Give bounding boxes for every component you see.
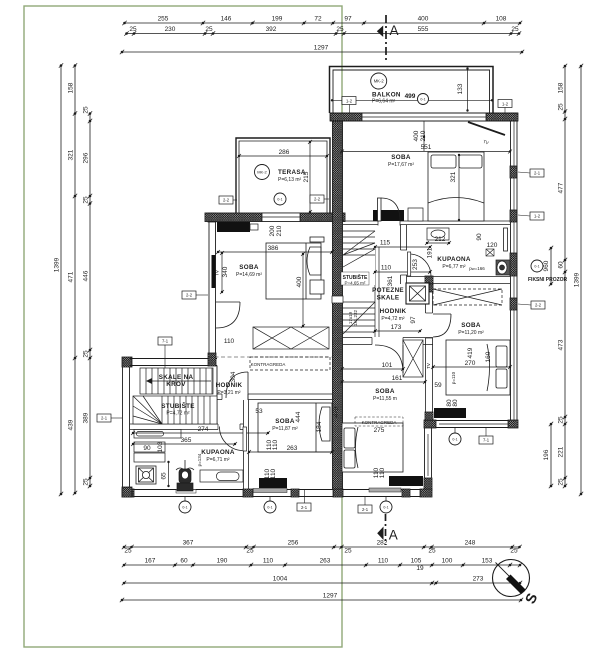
svg-text:190: 190 xyxy=(217,558,228,565)
dim dim212 xyxy=(425,236,451,245)
dim 400/210 window xyxy=(413,121,427,151)
box 2-2 right wall c xyxy=(531,301,545,309)
svg-text:120: 120 xyxy=(487,242,498,249)
dim 115 xyxy=(373,240,432,250)
marker 0-1 bottom c xyxy=(380,501,392,513)
svg-text:167: 167 xyxy=(145,558,156,565)
svg-text:110: 110 xyxy=(224,338,235,345)
svg-text:133: 133 xyxy=(457,83,464,94)
radiator kupaona right xyxy=(504,228,508,251)
washbasin kupaona left xyxy=(200,470,243,482)
box 7-1 bottom right xyxy=(479,436,493,444)
dim chain right mid xyxy=(558,64,568,488)
kupaona-right south wall xyxy=(407,276,510,284)
svg-text:TERASA: TERASA xyxy=(278,169,306,176)
svg-text:110: 110 xyxy=(379,467,386,478)
dim balkon width xyxy=(331,93,493,102)
section marker A top xyxy=(377,15,399,63)
terasa parapet xyxy=(236,138,330,213)
box 2-1 left wall xyxy=(97,414,111,422)
dim chain left mid xyxy=(68,63,78,495)
dim chain right win2 xyxy=(543,422,553,488)
kontragreda beam left xyxy=(250,357,330,370)
marker 0-1 balkon xyxy=(418,94,429,105)
svg-text:POTEZNE: POTEZNE xyxy=(372,287,404,294)
svg-text:389: 389 xyxy=(83,412,90,423)
svg-text:KONTRAGREDA: KONTRAGREDA xyxy=(362,420,397,425)
svg-text:P=4,72 m²: P=4,72 m² xyxy=(166,411,190,417)
svg-text:173: 173 xyxy=(391,324,402,331)
dim dim270 xyxy=(431,360,512,369)
marker MK-2 balkon xyxy=(371,73,387,89)
svg-text:80: 80 xyxy=(452,399,459,407)
svg-text:P=17,67 m²: P=17,67 m² xyxy=(388,162,414,168)
leader 0-1 a xyxy=(184,497,186,501)
svg-text:1x1,232: 1x1,232 xyxy=(353,309,358,326)
dashed slab edge xyxy=(208,356,332,358)
marker 0-1 window d xyxy=(449,433,461,445)
svg-text:pw=166: pw=166 xyxy=(469,266,485,271)
svg-text:HODNIK: HODNIK xyxy=(380,308,407,315)
dim chain right win1 xyxy=(543,246,553,286)
dim dim263 xyxy=(247,445,334,454)
svg-text:P=4,65 m²: P=4,65 m² xyxy=(345,281,366,286)
small square kupaona right xyxy=(486,249,494,256)
svg-text:230: 230 xyxy=(165,26,176,33)
svg-text:0-1: 0-1 xyxy=(267,505,272,509)
kontragreda beam right xyxy=(433,289,502,305)
svg-text:365: 365 xyxy=(181,437,192,444)
box 1-2 balkon left xyxy=(342,97,356,114)
svg-text:2-2: 2-2 xyxy=(223,198,230,203)
balcony parapet xyxy=(330,67,494,114)
top wall right unit xyxy=(330,113,518,121)
door soba 11,20 xyxy=(433,314,451,337)
svg-text:101: 101 xyxy=(382,362,393,369)
bottom wall xyxy=(122,488,432,497)
box 7-1 skale xyxy=(158,337,172,345)
svg-text:210: 210 xyxy=(276,225,283,236)
wall under soba 17,67 xyxy=(343,220,510,226)
svg-text:25: 25 xyxy=(558,416,565,424)
svg-text:MK-2: MK-2 xyxy=(257,169,267,174)
svg-text:153: 153 xyxy=(482,558,493,565)
svg-text:255: 255 xyxy=(158,16,169,23)
dim soba1 width xyxy=(340,144,512,154)
svg-text:0-1: 0-1 xyxy=(277,197,282,201)
dim chain left outer xyxy=(54,63,64,496)
black dresser soba 11,87 xyxy=(259,478,287,488)
svg-text:P=6,64 m²: P=6,64 m² xyxy=(372,99,396,105)
svg-text:A: A xyxy=(389,528,398,543)
box 1-2 balkon right xyxy=(498,100,512,114)
svg-text:1-2: 1-2 xyxy=(534,214,541,219)
dim 110/110 bottom xyxy=(373,467,386,478)
right wall xyxy=(510,121,517,420)
box 2-2 terasa left xyxy=(219,196,233,204)
dim 200/210 xyxy=(269,225,283,236)
dim 304 xyxy=(230,371,237,382)
step wall lower-left block xyxy=(130,359,217,366)
dim chain left inner xyxy=(83,106,93,488)
svg-text:25: 25 xyxy=(344,548,352,555)
wardrobe X soba 11,20 xyxy=(403,340,423,377)
soba 11,20 west wall xyxy=(425,284,434,420)
svg-text:2-1: 2-1 xyxy=(362,507,369,512)
svg-text:7-1: 7-1 xyxy=(483,438,490,443)
box 2-2 terasa right xyxy=(310,195,324,203)
svg-text:0-1: 0-1 xyxy=(534,264,539,268)
dim chain bottom row1 xyxy=(122,540,522,550)
svg-text:TV: TV xyxy=(426,363,431,369)
svg-text:110: 110 xyxy=(263,558,274,565)
svg-text:1-2: 1-2 xyxy=(502,101,509,106)
svg-text:65: 65 xyxy=(161,472,168,480)
svg-text:SKALE: SKALE xyxy=(377,295,400,302)
svg-text:275: 275 xyxy=(374,427,385,434)
dim dim161 xyxy=(340,375,427,384)
svg-text:477: 477 xyxy=(558,182,565,193)
dim chain right outer xyxy=(574,64,584,496)
terasa south wall xyxy=(205,213,345,222)
leader 0-1 b xyxy=(269,497,271,501)
svg-text:392: 392 xyxy=(266,26,277,33)
black dresser soba 17,67 xyxy=(373,210,404,221)
svg-text:400: 400 xyxy=(296,276,303,287)
dims soba 11,87 xyxy=(295,411,323,432)
svg-text:367: 367 xyxy=(183,540,194,547)
svg-text:1297: 1297 xyxy=(323,593,338,600)
dim dim365 xyxy=(131,437,237,446)
svg-text:0-1: 0-1 xyxy=(182,505,187,509)
left unit west wall xyxy=(208,213,216,366)
svg-text:210: 210 xyxy=(420,130,427,141)
svg-text:551: 551 xyxy=(421,144,432,151)
svg-text:158: 158 xyxy=(68,82,75,93)
svg-text:7-1: 7-1 xyxy=(162,339,169,344)
dim dim173 xyxy=(373,324,422,333)
svg-text:P=6,71 m²: P=6,71 m² xyxy=(206,457,230,463)
stair block east wall line xyxy=(216,366,218,425)
svg-text:296: 296 xyxy=(83,152,90,163)
dim dim101 xyxy=(340,362,405,371)
dim 97 xyxy=(410,316,417,324)
right lower wall xyxy=(424,428,432,490)
svg-text:270: 270 xyxy=(465,360,476,367)
svg-text:P=11,20 m²: P=11,20 m² xyxy=(458,330,484,336)
stairs skale na krov xyxy=(140,368,213,394)
svg-text:2-1: 2-1 xyxy=(534,171,541,176)
stairs stubiste right xyxy=(343,225,375,334)
svg-text:108: 108 xyxy=(496,16,507,23)
svg-text:25: 25 xyxy=(511,26,519,33)
svg-text:P=3,21 m²: P=3,21 m² xyxy=(217,390,241,396)
svg-text:0-1: 0-1 xyxy=(383,505,388,509)
door kupaona right xyxy=(408,252,432,276)
svg-text:1297: 1297 xyxy=(314,45,329,52)
shower kupaona left xyxy=(136,466,156,484)
svg-text:161: 161 xyxy=(392,375,403,382)
center party wall xyxy=(332,121,343,489)
svg-text:471: 471 xyxy=(68,271,75,282)
svg-text:90: 90 xyxy=(476,233,483,241)
bed soba 17,67 xyxy=(428,152,484,221)
counter kupaona left xyxy=(134,430,181,439)
dim chain top row3 xyxy=(120,45,524,55)
bed soba 14,69 xyxy=(266,237,324,299)
svg-text:90: 90 xyxy=(143,445,151,452)
box 2-1 right wall a xyxy=(530,169,544,177)
svg-text:KONTRAGREDA: KONTRAGREDA xyxy=(251,362,286,367)
svg-text:199: 199 xyxy=(272,16,283,23)
svg-text:2-2: 2-2 xyxy=(535,303,542,308)
svg-text:25: 25 xyxy=(246,548,254,555)
svg-text:P=4,72 m²: P=4,72 m² xyxy=(381,316,405,322)
svg-text:184: 184 xyxy=(316,421,323,432)
door garden soba 14,69 xyxy=(216,302,240,328)
svg-text:273: 273 xyxy=(473,576,484,583)
bed soba 11,87 xyxy=(258,403,332,452)
svg-text:STUBIŠTE: STUBIŠTE xyxy=(161,401,195,410)
toilet kupaona left (dark) xyxy=(176,460,194,491)
svg-text:SOBA: SOBA xyxy=(239,264,259,271)
svg-text:0-1: 0-1 xyxy=(420,98,425,102)
svg-text:25: 25 xyxy=(428,548,436,555)
bottom-right wall xyxy=(424,420,518,428)
svg-text:25: 25 xyxy=(205,26,213,33)
svg-text:25: 25 xyxy=(83,106,90,114)
marker 0-1 bottom b xyxy=(264,501,276,513)
svg-text:60: 60 xyxy=(180,558,188,565)
svg-text:53: 53 xyxy=(255,408,263,415)
svg-text:P=6,77 m²: P=6,77 m² xyxy=(442,264,466,270)
dim dim274 xyxy=(131,426,270,435)
svg-text:KROV: KROV xyxy=(166,381,186,388)
svg-text:97: 97 xyxy=(410,316,417,324)
dim soba2 width xyxy=(216,245,334,254)
leader 0-1 c xyxy=(385,497,387,501)
svg-text:19: 19 xyxy=(416,565,424,572)
door soba 11,87 xyxy=(226,372,248,400)
svg-text:1399: 1399 xyxy=(54,257,61,272)
svg-text:KUPAONA: KUPAONA xyxy=(201,449,235,456)
svg-text:FIKSNI PROZOR: FIKSNI PROZOR xyxy=(528,277,568,283)
svg-text:158: 158 xyxy=(558,82,565,93)
svg-text:MK-2: MK-2 xyxy=(374,79,385,84)
svg-text:212: 212 xyxy=(435,236,446,243)
nightstand soba 17,67 xyxy=(408,208,423,221)
washbasin kupaona right xyxy=(427,228,449,240)
dim terasa depth xyxy=(303,140,312,214)
door kupaona left xyxy=(219,427,246,452)
svg-text:25: 25 xyxy=(510,548,518,555)
marker 0-1 fiksni xyxy=(531,260,543,272)
svg-text:386: 386 xyxy=(268,245,279,252)
toilet dark kupaona right xyxy=(496,260,510,275)
svg-text:SKALE NA: SKALE NA xyxy=(159,374,194,381)
marker 0-1 bottom a xyxy=(179,501,191,513)
svg-text:274: 274 xyxy=(198,426,209,433)
svg-text:103: 103 xyxy=(157,441,164,452)
marker MK-2 terasa xyxy=(255,165,270,180)
dim chain top row1 xyxy=(122,16,522,26)
svg-text:115: 115 xyxy=(380,240,391,247)
svg-text:25: 25 xyxy=(129,26,137,33)
svg-text:361: 361 xyxy=(387,275,394,286)
dim 110 xyxy=(373,265,432,275)
svg-text:1004: 1004 xyxy=(273,576,288,583)
svg-text:160: 160 xyxy=(485,351,492,362)
svg-text:P=14,69 m²: P=14,69 m² xyxy=(236,272,262,278)
svg-text:P=6,13 m²: P=6,13 m² xyxy=(278,177,302,183)
room label STUBISTE right xyxy=(341,272,369,286)
svg-text:BALKON: BALKON xyxy=(372,92,401,99)
svg-text:25: 25 xyxy=(558,103,565,111)
svg-text:SOBA: SOBA xyxy=(391,154,411,161)
svg-text:400: 400 xyxy=(413,130,420,141)
shaft square with X xyxy=(406,283,429,304)
dim chain bottom row4 xyxy=(120,593,523,603)
svg-text:59: 59 xyxy=(434,382,442,389)
dim 419/160 xyxy=(467,347,492,362)
svg-text:256: 256 xyxy=(288,540,299,547)
dim 90/120 xyxy=(476,233,498,249)
svg-text:A: A xyxy=(390,23,399,38)
svg-text:439: 439 xyxy=(68,419,75,430)
tv on wall xyxy=(212,255,216,288)
box 2-1 bottom center xyxy=(358,497,372,513)
stair closet wall right xyxy=(374,247,376,337)
box 2-2 left soba wall xyxy=(182,291,196,299)
leader 0-1 d xyxy=(454,428,456,433)
svg-text:2-1: 2-1 xyxy=(101,416,108,421)
svg-text:25: 25 xyxy=(336,26,344,33)
stair label 17x10 xyxy=(348,309,358,326)
svg-text:SOBA: SOBA xyxy=(375,388,395,395)
svg-text:P=11,55 m: P=11,55 m xyxy=(373,396,397,402)
svg-text:KUPAONA: KUPAONA xyxy=(437,256,471,263)
svg-text:110: 110 xyxy=(378,558,389,565)
svg-text:1399: 1399 xyxy=(574,272,581,287)
svg-text:25: 25 xyxy=(83,196,90,204)
svg-text:60: 60 xyxy=(558,261,565,269)
svg-text:SOBA: SOBA xyxy=(275,418,295,425)
svg-text:446: 446 xyxy=(83,270,90,281)
svg-text:321: 321 xyxy=(450,171,457,182)
svg-text:200: 200 xyxy=(269,225,276,236)
svg-text:P=11,87 m²: P=11,87 m² xyxy=(272,426,298,432)
marker 0-1 terasa xyxy=(274,193,286,205)
svg-text:110: 110 xyxy=(272,439,279,450)
dim soba2 depth xyxy=(296,252,305,328)
svg-text:286: 286 xyxy=(279,149,290,156)
dim terasa width xyxy=(237,149,329,158)
compass xyxy=(493,560,542,607)
svg-text:SOBA: SOBA xyxy=(461,322,481,329)
door soba 17,67 xyxy=(378,198,401,221)
svg-text:0-1: 0-1 xyxy=(452,437,457,441)
dim 340 xyxy=(220,251,229,294)
black dresser soba 11,20 xyxy=(434,408,466,418)
dim 361 xyxy=(387,275,394,286)
kupaona-left east wall xyxy=(243,400,245,489)
dim balkon depth 133 xyxy=(457,67,469,111)
svg-text:25: 25 xyxy=(83,350,90,358)
svg-text:191: 191 xyxy=(427,247,434,258)
svg-text:2-2: 2-2 xyxy=(314,197,321,202)
bed soba 11,20 xyxy=(446,340,510,395)
svg-text:444: 444 xyxy=(295,411,302,422)
cabinets kupaona left xyxy=(134,442,165,462)
svg-text:100: 100 xyxy=(442,558,453,565)
door soba 11,55 xyxy=(375,345,403,373)
left lower wall xyxy=(122,357,132,497)
svg-text:2-2: 2-2 xyxy=(186,293,193,298)
tv diagonal xyxy=(468,122,505,135)
svg-text:97: 97 xyxy=(344,16,352,23)
wardrobe X soba 14,69 xyxy=(253,327,329,349)
svg-text:400: 400 xyxy=(418,16,429,23)
svg-text:110: 110 xyxy=(270,468,277,479)
svg-text:TV: TV xyxy=(215,270,220,276)
stairs stubiste left xyxy=(133,396,217,424)
dim 80/80 xyxy=(446,399,459,407)
svg-text:25: 25 xyxy=(124,548,132,555)
svg-text:263: 263 xyxy=(320,558,331,565)
dim chain bottom row2 xyxy=(122,558,522,568)
dim chain bottom row3 xyxy=(122,576,522,586)
svg-text:473: 473 xyxy=(558,339,565,350)
bed soba 11,55 xyxy=(342,423,403,472)
svg-text:25: 25 xyxy=(558,478,565,486)
svg-text:555: 555 xyxy=(418,26,429,33)
svg-text:2-1: 2-1 xyxy=(301,505,308,510)
section marker A bottom xyxy=(377,514,398,545)
svg-text:321: 321 xyxy=(68,149,75,160)
svg-text:146: 146 xyxy=(221,16,232,23)
hodnik-right south wall xyxy=(343,337,433,346)
svg-text:960: 960 xyxy=(543,260,550,271)
box 2-1 bottom left2 xyxy=(297,490,311,511)
svg-text:253: 253 xyxy=(412,259,419,270)
svg-text:105: 105 xyxy=(411,558,422,565)
svg-text:1-2: 1-2 xyxy=(346,98,353,103)
svg-text:196: 196 xyxy=(543,449,550,460)
kontragreda 11,55 xyxy=(355,417,403,434)
svg-text:263: 263 xyxy=(287,445,298,452)
svg-text:248: 248 xyxy=(465,540,476,547)
stubiste-left south wall xyxy=(130,424,243,431)
svg-text:419: 419 xyxy=(467,347,474,358)
svg-text:470: 470 xyxy=(333,406,340,417)
box 1-2 right wall b xyxy=(530,212,544,220)
dim chain top row2 xyxy=(124,26,521,36)
black dresser soba 14,69 wall xyxy=(217,222,250,232)
svg-text:p=110: p=110 xyxy=(451,371,456,384)
svg-text:110: 110 xyxy=(381,265,392,272)
soba 11,87 north wall xyxy=(217,394,332,401)
section cut region (green) xyxy=(24,6,342,647)
svg-text:340: 340 xyxy=(222,266,229,277)
svg-text:72: 72 xyxy=(314,16,322,23)
kupaona-right west wall xyxy=(400,225,408,284)
black dresser soba 11,55 xyxy=(389,476,423,486)
dim 253/191 xyxy=(412,247,434,270)
door hodnik right top xyxy=(410,254,433,277)
svg-text:221: 221 xyxy=(558,446,565,457)
svg-text:499: 499 xyxy=(405,93,416,100)
svg-text:25: 25 xyxy=(83,478,90,486)
